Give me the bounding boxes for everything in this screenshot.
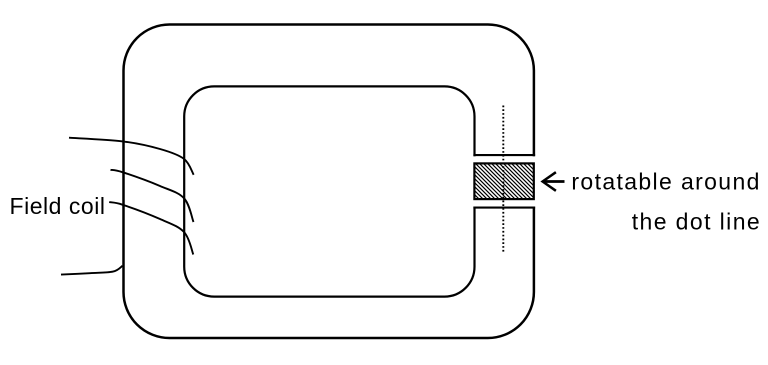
gap cut face (top) [473, 154, 535, 156]
gap cut face (bottom) [473, 207, 535, 209]
field coil turn 3 [109, 202, 193, 254]
core inner boundary (window of the core) [184, 86, 474, 296]
air gap white-out in right limb [470, 156, 538, 206]
arrow pointing to armature [544, 180, 564, 183]
field coil lead-out wire (bottom) [61, 266, 123, 275]
rotatable armature (hatched block) in gap [474, 163, 533, 199]
core outer boundary (rounded rect) [124, 25, 534, 339]
rotation axis (vertical dotted line) [502, 106, 504, 253]
svg-text:Field coil: Field coil [10, 193, 106, 219]
svg-text:rotatable around: rotatable around [571, 169, 759, 195]
svg-text:the dot line: the dot line [632, 209, 760, 235]
field coil turn 2 [111, 170, 194, 222]
field coil turn 1 [69, 138, 194, 175]
